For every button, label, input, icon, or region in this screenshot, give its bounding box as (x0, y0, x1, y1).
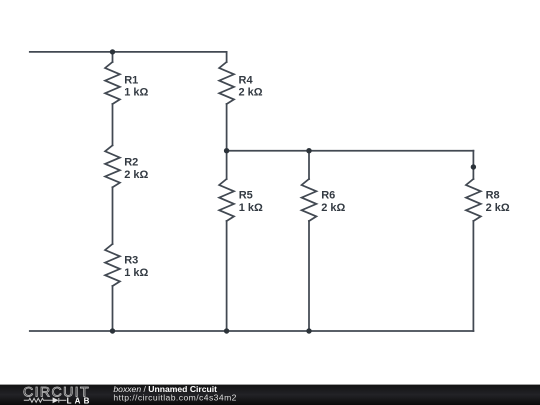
CircuitLab logo schematic line with resistor (24, 398, 67, 403)
svg-text:LAB: LAB (67, 397, 93, 405)
wire R1 top lead (112, 52, 114, 62)
wire R4 top lead (226, 52, 228, 62)
wire R8 bottom lead (472, 221, 474, 331)
resistor R8 (466, 179, 481, 221)
svg-text:http://circuitlab.com/c4s34m2: http://circuitlab.com/c4s34m2 (113, 393, 236, 403)
wire R2-R3 (112, 187, 114, 244)
svg-text:2 kΩ: 2 kΩ (124, 169, 148, 181)
svg-text:2 kΩ: 2 kΩ (239, 87, 263, 99)
svg-text:R8: R8 (486, 190, 500, 202)
junction middle rail / R5 (224, 148, 229, 153)
resistor R6 (302, 179, 317, 221)
junction bottom rail / R5 (224, 328, 229, 333)
wire R5 bottom lead (226, 221, 228, 331)
svg-text:R5: R5 (239, 190, 253, 202)
CircuitLab logo diode triangle (53, 397, 59, 403)
wire bottom rail (30, 330, 474, 332)
svg-text:1 kΩ: 1 kΩ (124, 267, 148, 279)
resistor R3 (105, 244, 120, 286)
svg-text:R4: R4 (239, 74, 254, 86)
svg-text:R3: R3 (124, 255, 138, 267)
resistor R2 (105, 145, 120, 187)
wire R8 top lead (472, 151, 474, 179)
wire R1-R2 (112, 104, 114, 145)
svg-text:R1: R1 (124, 74, 138, 86)
junction bottom rail / R3 (110, 328, 115, 333)
resistor R4 (219, 62, 234, 104)
svg-text:2 kΩ: 2 kΩ (486, 202, 510, 214)
svg-text:1 kΩ: 1 kΩ (239, 202, 263, 214)
wire R6 bottom lead (308, 221, 310, 331)
junction middle rail / R6 (306, 148, 311, 153)
wire R3 bottom lead (112, 286, 114, 331)
resistor R5 (219, 179, 234, 221)
junction top rail / R1 (110, 49, 115, 54)
svg-text:1 kΩ: 1 kΩ (124, 87, 148, 99)
svg-text:R6: R6 (321, 190, 335, 202)
junction bottom rail / R6 (306, 328, 311, 333)
wire top rail (30, 51, 227, 53)
svg-text:2 kΩ: 2 kΩ (321, 202, 345, 214)
wire R6 top lead (308, 151, 310, 179)
junction R8 lead (471, 164, 476, 169)
wire R4-R5 (226, 104, 228, 179)
svg-text:R2: R2 (124, 157, 138, 169)
resistor R1 (105, 62, 120, 104)
wire middle rail (227, 150, 474, 152)
